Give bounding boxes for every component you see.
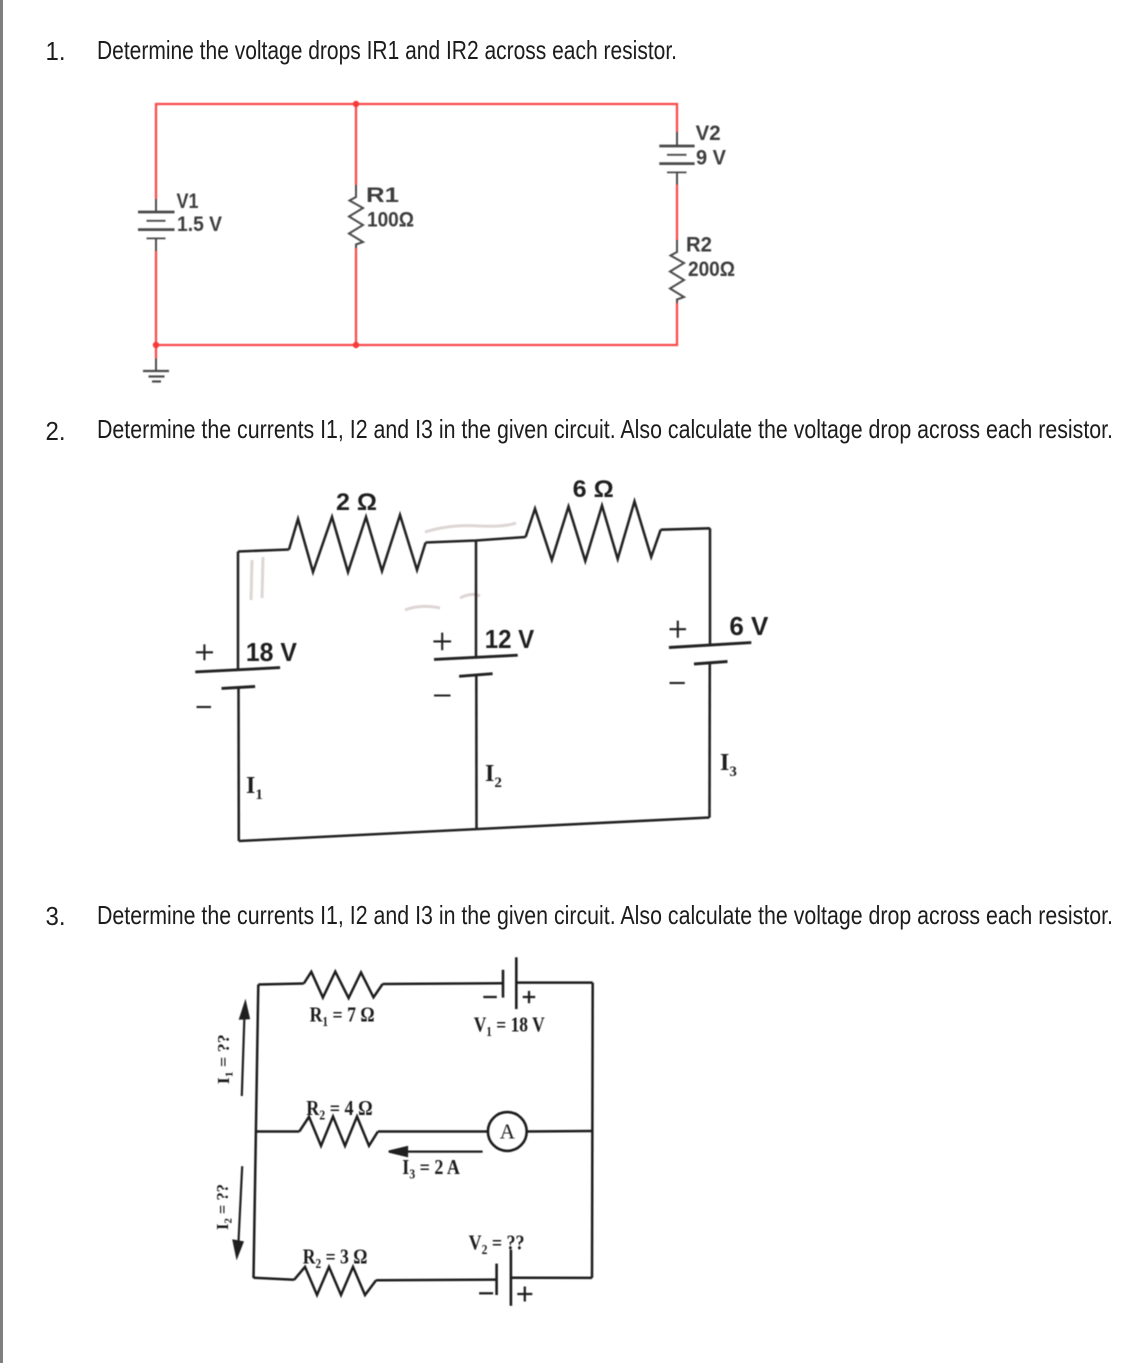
wire middle lower [475, 675, 478, 829]
svg-text:I2: I2 [485, 761, 502, 791]
battery V1 [138, 199, 175, 251]
svg-text:R2 = 4 Ω: R2 = 4 Ω [306, 1096, 372, 1123]
wire top to battery V1 [383, 982, 503, 985]
svg-text:I1 = ??: I1 = ?? [214, 1034, 236, 1084]
wire left (circuit 2) [237, 552, 240, 671]
svg-text:6 V: 6 V [729, 611, 769, 641]
wire top middle [426, 537, 526, 543]
svg-text:A: A [500, 1120, 516, 1144]
plus sign 6V [670, 621, 687, 638]
node junction top middle [353, 101, 359, 107]
wire right (circuit 3) [591, 983, 594, 1278]
wire middle bottom [355, 248, 357, 345]
resistor 6 ohm [526, 501, 661, 561]
wire battery V2 to right corner [511, 1277, 592, 1280]
wire ground stub red [155, 345, 157, 359]
resistor R1 7ohm [304, 972, 383, 998]
svg-text:V1: V1 [177, 190, 199, 213]
svg-text:100Ω: 100Ω [367, 209, 414, 232]
arrow I3 left [404, 1150, 483, 1152]
scan ghost blob [405, 594, 480, 610]
svg-text:1.: 1. [46, 36, 66, 66]
page left edge strip [0, 0, 3, 1363]
svg-text:Determine the currents I1, I2: Determine the currents I1, I2 and I3 in … [97, 414, 1113, 444]
battery V1 short plate [502, 970, 505, 998]
svg-text:12 V: 12 V [485, 624, 535, 654]
svg-text:2.: 2. [46, 416, 66, 446]
plus sign V1 [523, 991, 536, 1003]
minus sign 18V [197, 706, 212, 708]
resistor R2 [670, 240, 684, 303]
minus sign V2 [479, 1292, 493, 1294]
wire bottom (circuit 2) [239, 818, 710, 842]
svg-text:200Ω: 200Ω [688, 258, 735, 281]
battery V2 [659, 132, 694, 185]
scan ghost left column [251, 557, 263, 600]
ground [143, 359, 169, 382]
svg-text:1.5 V: 1.5 V [177, 213, 222, 236]
wire ammeter to right [527, 1130, 592, 1133]
battery V2 tall plate [510, 1250, 513, 1306]
svg-text:Determine the currents I1, I2: Determine the currents I1, I2 and I3 in … [97, 900, 1113, 930]
arrow I2 down [239, 1166, 243, 1241]
wire top (circuit 1) [156, 104, 677, 199]
svg-text:9 V: 9 V [696, 147, 726, 170]
wire right upper [709, 528, 712, 645]
svg-text:V1 = 18 V: V1 = 18 V [474, 1013, 545, 1040]
wire bottom (circuit 1) [156, 251, 677, 345]
wire middle top [355, 104, 357, 185]
wire middle upper [475, 541, 478, 658]
svg-text:I1: I1 [246, 773, 263, 803]
wire left (circuit 3) [254, 985, 259, 1279]
svg-text:3.: 3. [46, 901, 66, 931]
battery 12V plates [434, 655, 518, 659]
wire bottom left [254, 1278, 295, 1280]
svg-text:2 Ω: 2 Ω [336, 489, 377, 516]
svg-text:R2 = 3 Ω: R2 = 3 Ω [303, 1244, 368, 1271]
svg-text:V2: V2 [696, 122, 721, 145]
wire middle left [257, 1130, 300, 1133]
wire left lower [237, 688, 240, 842]
battery 18V plates [195, 668, 280, 672]
plus sign 18V [196, 644, 213, 660]
node junction bottom left [153, 342, 159, 348]
minus sign V1 [483, 996, 497, 998]
wire top right [661, 528, 710, 529]
svg-text:I3 = 2 A: I3 = 2 A [402, 1155, 460, 1182]
svg-text:I3: I3 [720, 750, 737, 780]
plus sign 12V [433, 633, 451, 651]
svg-text:Determine the voltage drops IR: Determine the voltage drops IR1 and IR2 … [97, 35, 677, 65]
wire top left [238, 550, 289, 552]
svg-text:R1 = 7 Ω: R1 = 7 Ω [310, 1002, 375, 1029]
minus sign 6V [670, 682, 685, 684]
battery 6V plates [669, 643, 751, 648]
plus sign V2 [517, 1287, 532, 1302]
resistor R3 3ohm [294, 1267, 376, 1295]
resistor 2 ohm [289, 515, 426, 572]
wire V2 to R2 [676, 185, 678, 241]
svg-text:I2 = ??: I2 = ?? [213, 1184, 235, 1230]
resistor R2 4ohm [299, 1117, 378, 1146]
node junction bottom middle [353, 342, 359, 348]
resistor R1 [349, 185, 363, 248]
ammeter A circle [488, 1112, 527, 1151]
wire top left [258, 984, 304, 985]
svg-text:6 Ω: 6 Ω [573, 476, 614, 503]
wire middle to ammeter [378, 1130, 488, 1133]
minus sign 12V [434, 694, 451, 696]
arrow I1 up [242, 1017, 245, 1096]
svg-text:V2 = ??: V2 = ?? [469, 1231, 525, 1258]
svg-text:R1: R1 [366, 184, 399, 207]
battery V2 short plate [495, 1264, 498, 1295]
wire right lower [708, 663, 711, 818]
scan ghost above top wire [425, 523, 516, 532]
svg-text:R2: R2 [686, 234, 712, 257]
battery V1 tall plate [515, 957, 518, 1009]
wire battery V1 to right corner [516, 981, 592, 984]
svg-text:18 V: 18 V [246, 637, 298, 667]
wire bottom to battery V2 [376, 1278, 497, 1281]
